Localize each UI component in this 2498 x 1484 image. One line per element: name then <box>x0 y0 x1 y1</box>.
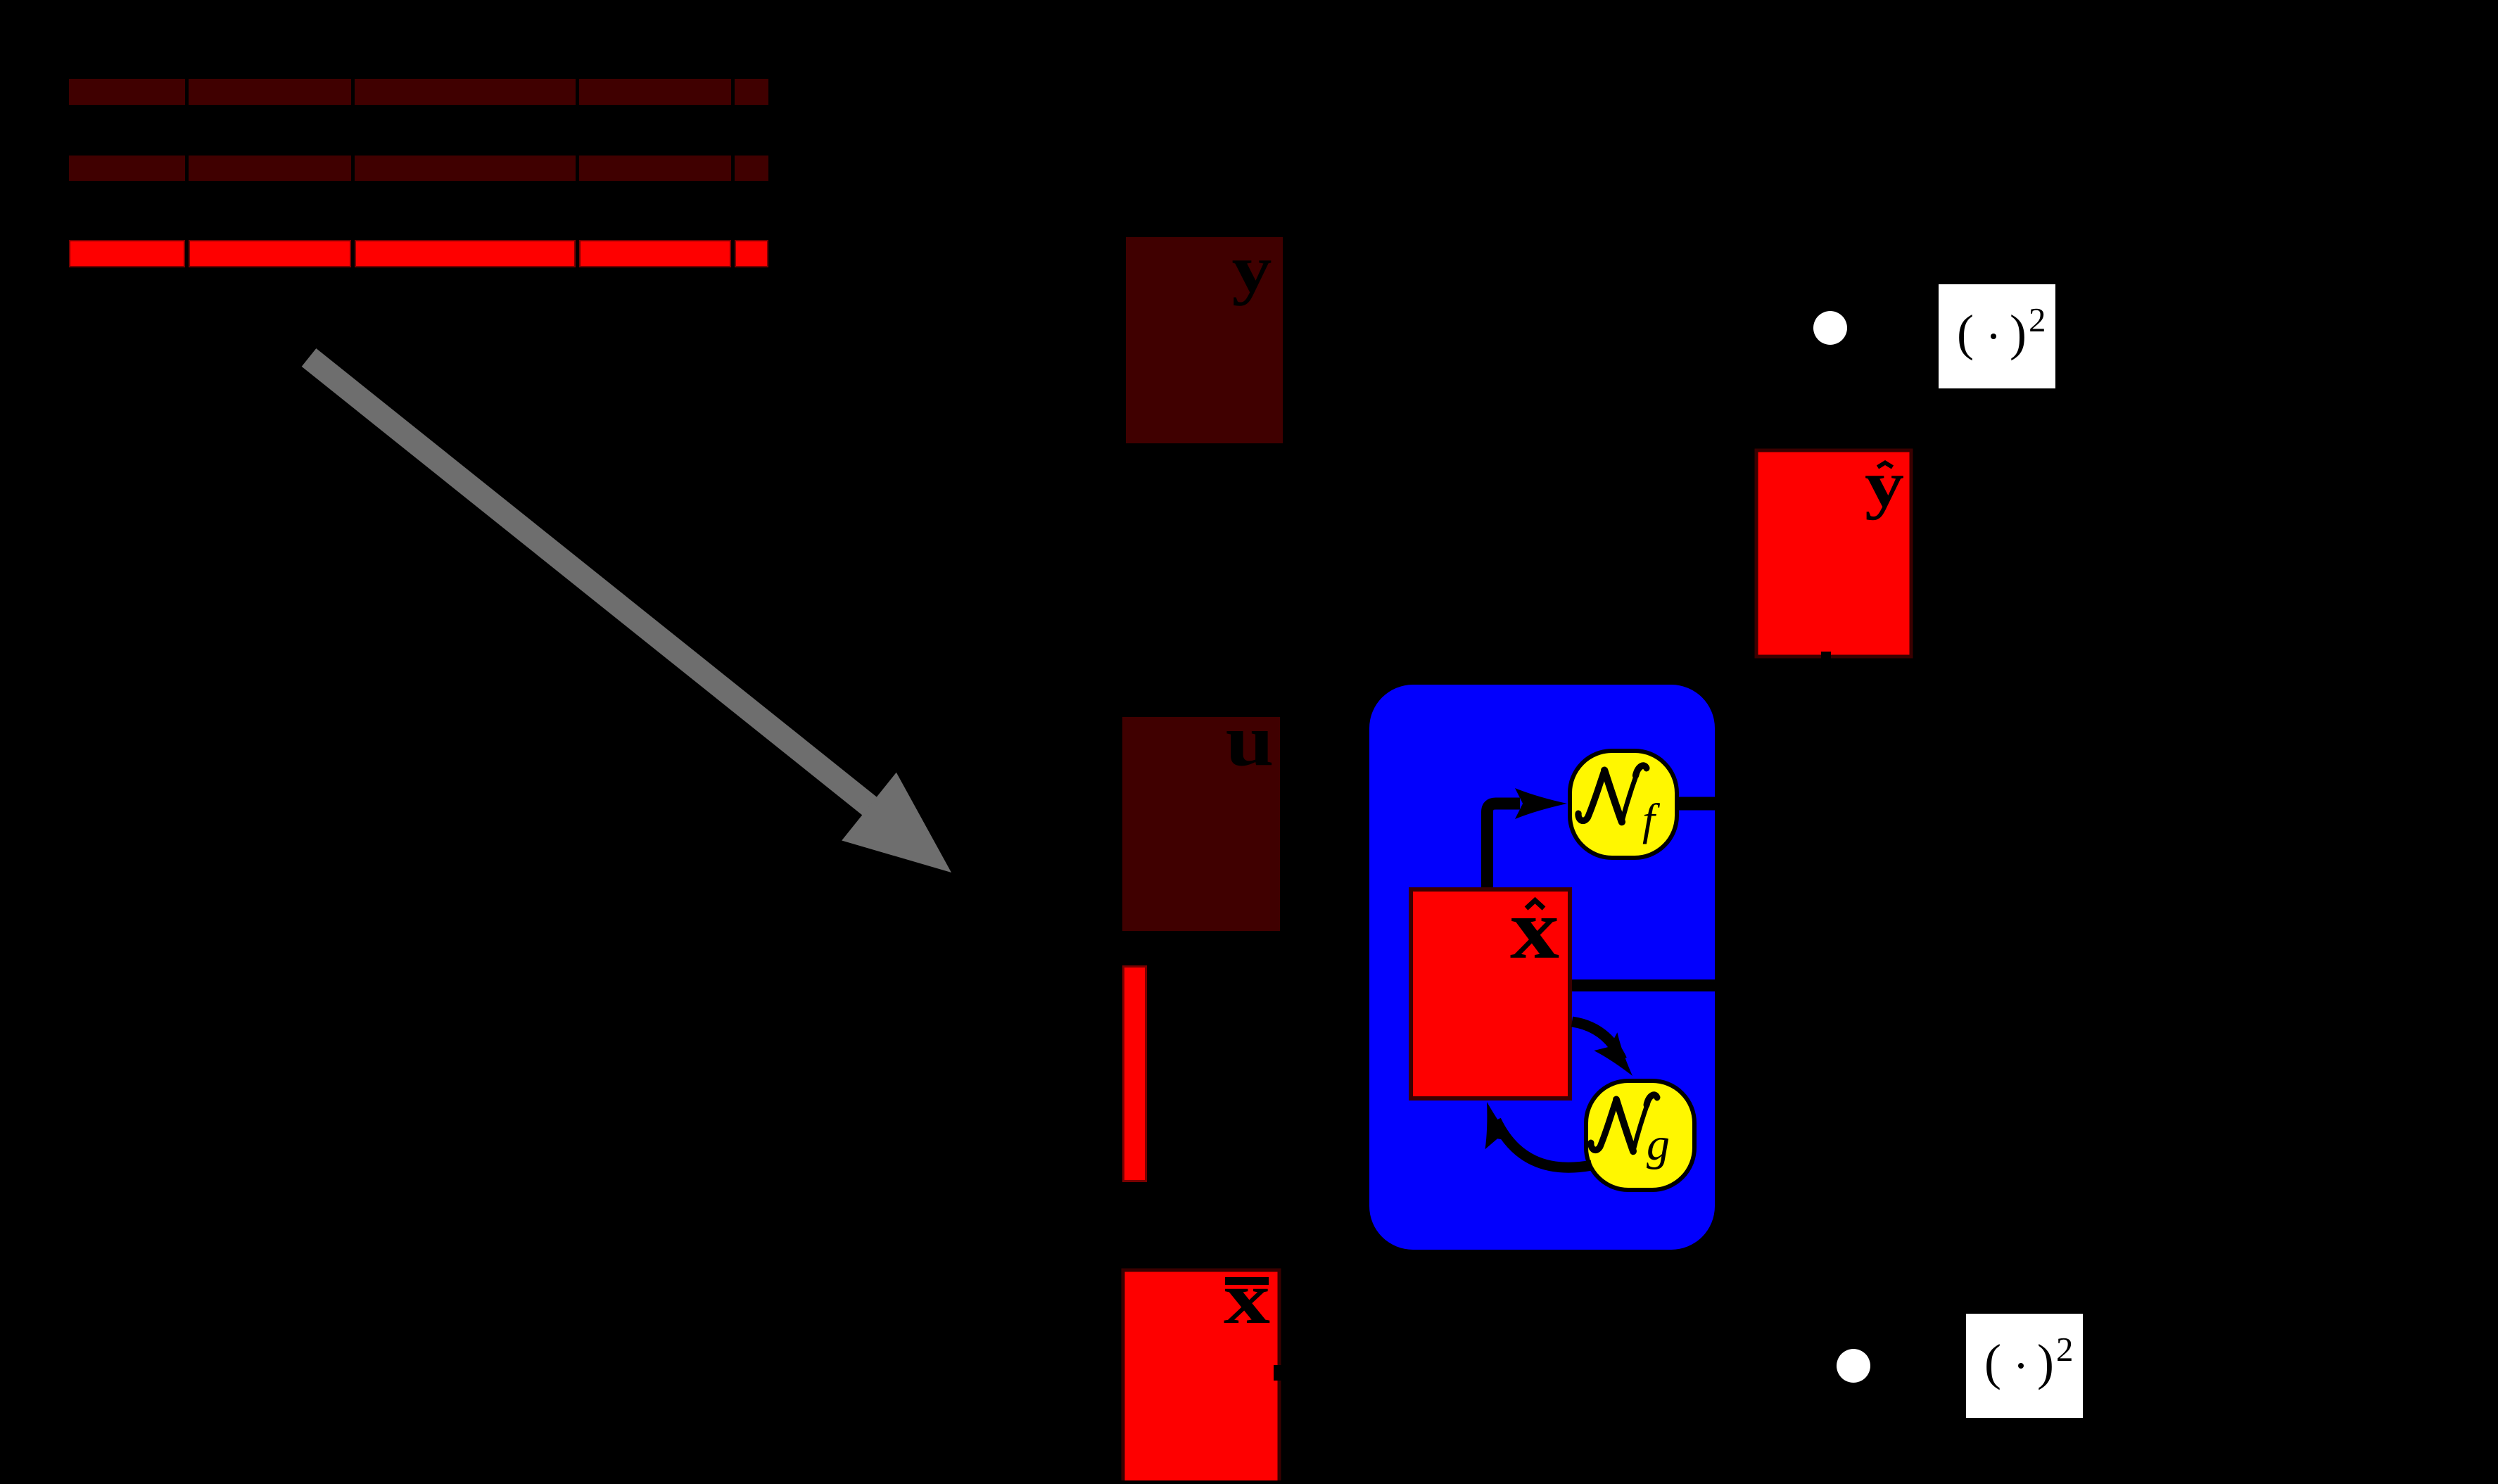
curved arrow Ng to xhat <box>1496 1120 1592 1167</box>
svg-text:x: x <box>1224 1257 1270 1339</box>
svg-text:2: 2 <box>2029 300 2046 339</box>
box x-hat (simulated state) <box>1411 889 1570 1098</box>
svg-text:y: y <box>1232 232 1272 306</box>
curved arrow xhat to Ng <box>1572 1022 1622 1060</box>
arrow tail tick under y-hat box <box>1821 652 1831 659</box>
loss box (.)^2 top <box>1939 284 2055 388</box>
arrow tail tick on x-bar box <box>1274 1365 1282 1381</box>
node Ng (yellow) <box>1586 1081 1694 1190</box>
svg-text:(: ( <box>1957 305 1974 361</box>
svg-text:y: y <box>1865 448 1904 521</box>
svg-text:(: ( <box>1984 1334 2001 1390</box>
svg-text:): ) <box>2010 305 2027 361</box>
box u (input batch) <box>1122 717 1280 931</box>
output line from Nf <box>1676 797 1717 811</box>
svg-text:u: u <box>1226 699 1274 781</box>
svg-text:x: x <box>1510 882 1559 977</box>
box y-hat (simulated output) <box>1756 450 1911 657</box>
svg-text:2: 2 <box>2056 1330 2074 1369</box>
white junction dot (top) <box>1813 311 1847 345</box>
node Nf (yellow) <box>1570 751 1677 858</box>
elbow arrow xhat to Nf <box>1488 804 1521 892</box>
loss box (.)^2 bottom <box>1966 1314 2083 1418</box>
gray arrow (batch extraction) <box>309 357 951 873</box>
output line from xhat <box>1571 979 1717 991</box>
thin bar (hidden state slice) <box>1124 967 1146 1181</box>
bar row x (bright red) <box>70 241 768 267</box>
label script-N g <box>1591 1095 1657 1151</box>
bar row u (dark red) <box>69 156 768 181</box>
bar row y (dark red) <box>69 79 768 105</box>
svg-text:g: g <box>1647 1119 1670 1170</box>
svg-text:): ) <box>2037 1334 2054 1390</box>
blue box (state-space simulator) <box>1369 685 1715 1250</box>
white junction dot (bottom) <box>1837 1349 1870 1383</box>
box y (measured output batch) <box>1126 237 1283 443</box>
box x-bar (hidden state batch) <box>1123 1270 1279 1484</box>
label script-N f <box>1578 766 1647 822</box>
